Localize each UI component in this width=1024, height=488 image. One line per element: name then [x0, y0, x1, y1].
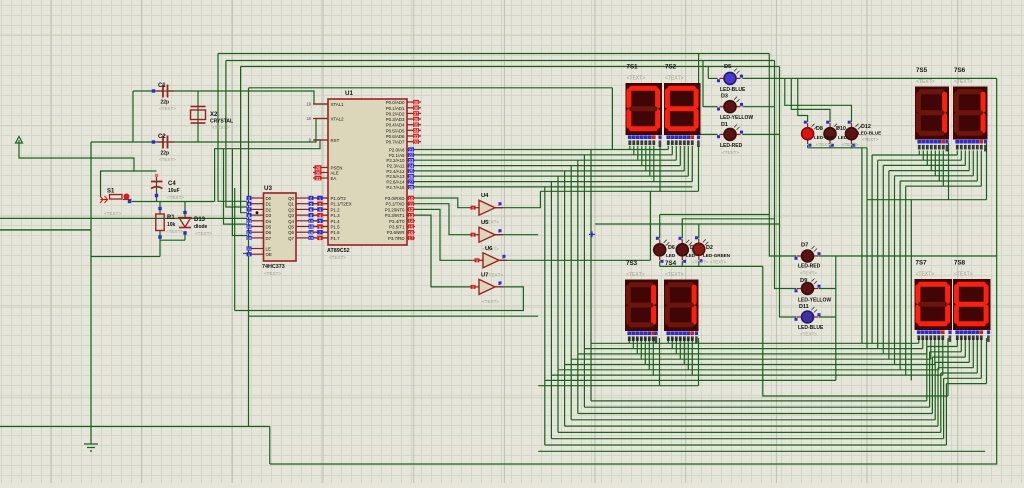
wire net1 top	[218, 53, 769, 55]
svg-text:D8: D8	[816, 126, 823, 132]
wire net3 top	[241, 66, 780, 68]
wire net2 top	[226, 60, 775, 62]
svg-text:P3.2/INT0: P3.2/INT0	[385, 207, 405, 212]
wire D3 input from left	[0, 217, 247, 219]
wire 7S5 pin 2	[926, 151, 928, 166]
wire P2.0 bus	[407, 149, 668, 151]
wire left edge net	[0, 229, 91, 231]
wire drop	[611, 88, 613, 150]
wire 7S6 pin 0	[956, 151, 958, 156]
7-segment display 7S8	[953, 279, 991, 342]
wire 7S4 pin 5	[687, 338, 689, 370]
wire 7S1 pin 6	[653, 146, 655, 182]
wire 7S8 pin 1	[960, 338, 962, 352]
wire jog 2	[932, 356, 965, 358]
svg-text:S1: S1	[107, 189, 115, 195]
wire low branch 7	[545, 444, 947, 446]
svg-text:<TEXT>: <TEXT>	[722, 150, 739, 155]
svg-text:13: 13	[247, 219, 252, 224]
wire 7S8 pin 4	[972, 338, 974, 368]
svg-text:P3.7/RD: P3.7/RD	[388, 236, 405, 241]
wire 7S6 pin 5	[976, 151, 978, 182]
svg-text:U6: U6	[485, 246, 493, 252]
svg-text:7S8: 7S8	[954, 260, 966, 267]
wire D7 right to wrap	[819, 255, 997, 257]
7-segment display 7S5	[915, 87, 949, 152]
wire led col left 3	[707, 67, 709, 79]
LED D8	[802, 121, 818, 147]
wire led col right 2	[774, 61, 776, 107]
wire 7S2 pin 2	[675, 146, 677, 160]
svg-text:C1: C1	[158, 83, 166, 89]
svg-text:16: 16	[309, 230, 314, 235]
wire 7S2 pin 0	[667, 146, 669, 150]
wire 7S6 pin 3	[968, 151, 970, 171]
wire riser 6	[905, 186, 907, 375]
wire VCC to C4 top	[19, 148, 157, 171]
svg-text:P3.0/RXD: P3.0/RXD	[385, 196, 405, 201]
LED Dx	[676, 237, 692, 263]
svg-text:P2.6/A14: P2.6/A14	[386, 180, 405, 185]
svg-text:U4: U4	[481, 193, 489, 199]
svg-text:<TEXT>: <TEXT>	[166, 229, 183, 234]
switch S1	[100, 194, 132, 204]
wire reset junction	[132, 201, 215, 203]
svg-text:D2: D2	[706, 245, 713, 251]
svg-text:<TEXT>: <TEXT>	[916, 272, 935, 278]
wire CA4 drop	[698, 338, 700, 386]
wire 7S8 pin 5	[976, 338, 978, 373]
wire U5 branch CA3/CA4	[538, 385, 698, 387]
7-segment display 7S1	[626, 83, 663, 147]
wire D9 feed	[775, 107, 797, 289]
wire net to right	[249, 87, 613, 89]
crystal X2	[191, 107, 206, 124]
svg-text:LE: LE	[266, 247, 271, 252]
svg-text:10uF: 10uF	[168, 188, 180, 194]
svg-text:P2.2/A10: P2.2/A10	[386, 158, 405, 163]
svg-text:7S4: 7S4	[665, 260, 677, 267]
wire 7S7 pin 6	[942, 338, 944, 375]
svg-text:Q6: Q6	[288, 230, 294, 235]
svg-text:Q2: Q2	[288, 207, 294, 212]
svg-text:CRYSTAL: CRYSTAL	[210, 119, 233, 125]
wire C1 to XTAL1	[133, 91, 328, 104]
wire D11 right	[819, 316, 836, 318]
wire led col left 1	[698, 54, 700, 135]
svg-text:7S6: 7S6	[954, 67, 966, 74]
wire D1 right stub	[742, 133, 779, 135]
wire U7 net riser	[234, 188, 236, 311]
wire D5 net top line	[742, 77, 996, 79]
wire fan line 1	[878, 159, 962, 161]
wire left edge net 2	[0, 229, 91, 231]
wire led bottom	[698, 261, 700, 266]
svg-text:LED-RED: LED-RED	[720, 143, 743, 149]
svg-text:<TEXT>: <TEXT>	[482, 299, 499, 304]
wire 7S8 pin 0	[956, 338, 958, 347]
wire jog 5	[941, 372, 978, 374]
wire bus vertical 4	[564, 171, 566, 426]
svg-text:12: 12	[409, 207, 414, 212]
wire led bottom	[681, 261, 683, 266]
svg-text:7S2: 7S2	[665, 64, 677, 71]
wire fan line 2	[883, 164, 965, 166]
wire CA1 drop	[659, 146, 661, 191]
7-segment display 7S2	[664, 83, 701, 147]
capacitor C1	[152, 85, 174, 98]
wire low riser 3	[934, 362, 936, 419]
svg-text:P0.3/AD3: P0.3/AD3	[386, 117, 405, 122]
wire bus vertical 7	[544, 187, 546, 445]
svg-text:P3.4/T0: P3.4/T0	[389, 219, 405, 224]
svg-text:X2: X2	[210, 112, 218, 118]
svg-text:25: 25	[409, 169, 414, 174]
svg-text:22p: 22p	[161, 100, 170, 106]
svg-text:<TEXT>: <TEXT>	[954, 79, 973, 85]
svg-text:RST: RST	[331, 138, 340, 143]
wire R1 bottom	[159, 231, 161, 257]
svg-text:10k: 10k	[167, 222, 176, 228]
wire 7S4 pin 3	[679, 338, 681, 359]
wire link down to U6 net	[649, 191, 651, 260]
wire CA8 drop	[986, 338, 988, 384]
svg-text:39: 39	[414, 100, 419, 105]
wire C1 left to C2 net	[132, 91, 134, 142]
svg-text:LED-BLUE: LED-BLUE	[798, 325, 824, 331]
ground	[84, 444, 98, 451]
wire gnd to C2	[91, 141, 133, 143]
wire fan line 3	[889, 170, 969, 172]
svg-text:D6: D6	[266, 230, 272, 235]
svg-text:28: 28	[409, 185, 414, 190]
wire bus vertical 0	[590, 150, 592, 401]
wire 7S5 pin 0	[918, 151, 920, 156]
wire D1 left stub	[699, 133, 718, 135]
svg-text:21: 21	[409, 147, 414, 152]
svg-text:<TEXT>: <TEXT>	[264, 271, 281, 276]
wire D2 input	[241, 67, 247, 213]
svg-text:<TEXT>: <TEXT>	[916, 79, 935, 85]
wire fan line 5	[900, 180, 977, 182]
svg-text:D10: D10	[836, 126, 846, 132]
svg-text:D1: D1	[266, 202, 272, 207]
wire P3.1 to U5	[407, 204, 471, 235]
wire 7S3 pin 5	[648, 338, 650, 370]
wire 7S2 pin 3	[679, 146, 681, 166]
svg-text:34: 34	[414, 128, 419, 133]
wire 7S4 pin 6	[691, 338, 693, 375]
svg-text:13: 13	[409, 213, 414, 218]
wire P2.3 bus	[407, 165, 680, 167]
wire CA5/CA6 line	[867, 199, 987, 201]
svg-text:P2.7/A15: P2.7/A15	[386, 185, 405, 190]
wire low riser 2	[931, 357, 933, 413]
svg-text:Q4: Q4	[288, 219, 294, 224]
wire 7S3 pin 1	[632, 338, 634, 349]
wire 7S2 pin 6	[691, 146, 693, 182]
wire riser 0	[871, 155, 873, 343]
wire 7S8 pin 3	[968, 338, 970, 362]
wire bus vertical 1	[583, 155, 585, 407]
svg-text:P1.6: P1.6	[331, 230, 341, 235]
wire 7S1 pin 1	[633, 146, 635, 155]
wire low riser 1	[929, 352, 931, 407]
wire fan line 0	[872, 154, 957, 156]
wire jog 6	[944, 377, 982, 379]
svg-text:D6: D6	[668, 245, 675, 251]
wire led col right 3	[779, 67, 781, 135]
svg-text:<TEXT>: <TEXT>	[159, 157, 176, 162]
wire branch line 2	[578, 353, 927, 355]
svg-text:D7: D7	[801, 243, 808, 249]
wire led top lead 2	[681, 219, 683, 239]
7-segment display 7S3	[625, 280, 658, 343]
wire 7S7 pin 5	[938, 338, 940, 370]
svg-text:24: 24	[409, 163, 414, 168]
wire low branch 0	[591, 400, 927, 402]
wire jog 4	[938, 367, 973, 369]
svg-text:23: 23	[409, 158, 414, 163]
svg-text:19: 19	[309, 236, 314, 241]
svg-text:<TEXT>: <TEXT>	[665, 272, 684, 278]
wire 7S8 pin 6	[980, 338, 982, 378]
svg-text:D11: D11	[799, 304, 809, 310]
wire D9 right	[819, 288, 836, 290]
wire 7S3 pin 2	[636, 338, 638, 354]
wire CA7 drop	[947, 338, 949, 396]
svg-text:D4: D4	[266, 219, 272, 224]
svg-text:LED-RED: LED-RED	[814, 135, 835, 140]
wire corner down	[269, 427, 271, 465]
wire D4 input	[224, 149, 248, 224]
wire LE stub	[243, 253, 252, 255]
wire row B down 2	[866, 148, 868, 349]
wire led bottoms	[660, 265, 763, 267]
svg-text:18: 18	[306, 116, 311, 121]
svg-text:LED-RED: LED-RED	[798, 264, 821, 270]
wire D2 top feed	[595, 223, 779, 225]
wire fan line 4	[895, 175, 974, 177]
svg-text:LED-: LED-	[838, 135, 849, 140]
wire led D6 bottom	[659, 261, 661, 266]
wire D6 top feed	[660, 214, 770, 216]
wire 7S7 pin 1	[922, 338, 924, 349]
svg-text:U3: U3	[264, 185, 272, 192]
svg-text:LED-YELLOW: LED-YELLOW	[720, 115, 753, 121]
wire bus vertical 5	[557, 176, 559, 432]
svg-text:D5: D5	[266, 225, 272, 230]
svg-text:D5: D5	[724, 64, 732, 70]
wire D6 input	[232, 149, 247, 236]
wire P2.2 bus	[407, 159, 676, 161]
wire branch line 0	[591, 342, 919, 344]
svg-text:10: 10	[409, 196, 414, 201]
wire 7S5 pin 5	[938, 151, 940, 182]
svg-text:D9: D9	[800, 278, 808, 284]
svg-text:U7: U7	[481, 272, 488, 278]
wire 7S6 pin 4	[972, 151, 974, 176]
svg-text:37: 37	[414, 111, 419, 116]
svg-text:XTAL2: XTAL2	[331, 117, 345, 122]
wire P3.0 to U4	[407, 198, 471, 208]
wire 7S1 pin 5	[649, 146, 651, 176]
svg-text:P3.6/WR: P3.6/WR	[387, 230, 405, 235]
7-segment display 7S7	[915, 279, 953, 342]
wire CA6 drop	[986, 143, 988, 200]
svg-text:38: 38	[414, 106, 419, 111]
wire D3 left stub	[703, 106, 718, 108]
wire Q7 to P1.7	[309, 237, 329, 239]
svg-text:P2.4/A12: P2.4/A12	[386, 169, 405, 174]
svg-text:<TEXT>: <TEXT>	[800, 271, 817, 276]
wire Q0 to P1.0	[309, 197, 329, 199]
wire 7S4 pin 1	[671, 338, 673, 349]
svg-text:74HC373: 74HC373	[262, 264, 285, 270]
svg-text:D: D	[690, 245, 694, 251]
wire D13 bottom	[184, 231, 186, 240]
wire D2 top lead	[698, 224, 700, 238]
wire low branch 5	[558, 431, 941, 433]
wire branch line 7	[545, 379, 836, 381]
wire bus vertical 2	[577, 160, 579, 413]
svg-text:U1: U1	[345, 90, 353, 97]
svg-text:7S5: 7S5	[916, 67, 928, 74]
capacitor C2	[152, 136, 174, 149]
wire 7S1 pin 0	[629, 146, 631, 150]
buffer U7	[471, 279, 504, 294]
wire D8 feed	[798, 78, 808, 122]
svg-text:Q1: Q1	[288, 202, 294, 207]
wire 7S1 pin 3	[641, 146, 643, 166]
wire reset to RST pin	[215, 140, 320, 202]
wire led col left 2	[702, 61, 704, 107]
wire low riser 5	[940, 373, 942, 432]
svg-text:P0.7/AD7: P0.7/AD7	[386, 140, 405, 145]
wire D6 top lead	[659, 215, 661, 239]
svg-text:15: 15	[309, 224, 314, 229]
wire branch line 3	[571, 358, 931, 360]
wire D1 input	[226, 61, 247, 208]
svg-text:<TEXT>: <TEXT>	[816, 142, 833, 147]
svg-text:7S1: 7S1	[627, 64, 639, 71]
wire 7S3 pin 3	[640, 338, 642, 359]
wire 7S3 pin 4	[644, 338, 646, 365]
wire low branch 6	[551, 438, 943, 440]
svg-text:17: 17	[247, 230, 252, 235]
svg-text:LED-BLUE: LED-BLUE	[720, 87, 746, 93]
svg-text:XTAL1: XTAL1	[331, 102, 345, 107]
svg-text:LED-YELLOW: LED-YELLOW	[798, 298, 831, 304]
svg-text:P0.5/AD5: P0.5/AD5	[386, 128, 405, 133]
wire 7S3 pin 0	[628, 338, 630, 343]
svg-text:P3.1/TXD: P3.1/TXD	[385, 202, 404, 207]
svg-text:22: 22	[409, 153, 414, 158]
svg-text:15: 15	[409, 224, 414, 229]
svg-text:AT89C52: AT89C52	[327, 248, 350, 254]
wire C4 bottom	[156, 179, 158, 202]
wire branch line 5	[558, 369, 939, 371]
svg-text:<TEXT>: <TEXT>	[104, 211, 121, 216]
wire 7S6 pin 2	[964, 151, 966, 166]
wire row B down 1	[861, 148, 863, 343]
wire bottom outer wrap	[270, 78, 997, 464]
wire CA5 drop	[948, 143, 950, 200]
svg-text:P1.1/T2EX: P1.1/T2EX	[331, 202, 352, 207]
wire led lead	[807, 145, 809, 148]
svg-text:14: 14	[247, 224, 252, 229]
wire D5 left stub	[708, 77, 717, 79]
LED D1	[717, 124, 743, 140]
buffer U5	[471, 227, 504, 242]
wire 7S6 pin 1	[960, 151, 962, 161]
svg-text:P1.7: P1.7	[331, 236, 341, 241]
svg-text:D12: D12	[861, 124, 871, 130]
svg-text:P0.4/AD4: P0.4/AD4	[386, 123, 405, 128]
wire U6 out	[499, 259, 650, 261]
svg-text:17: 17	[409, 236, 414, 241]
wire bottom-left long	[0, 426, 270, 428]
LED D10	[824, 121, 840, 147]
wire 7S6 pin 6	[980, 151, 982, 187]
svg-text:P1.5: P1.5	[331, 225, 341, 230]
wire U5 out	[495, 234, 538, 236]
svg-text:LED-GREEN: LED-GREEN	[703, 253, 731, 258]
svg-text:P0.2/AD2: P0.2/AD2	[386, 111, 405, 116]
svg-text:26: 26	[409, 174, 414, 179]
wire 7S2 pin 4	[683, 146, 685, 171]
svg-text:<TEXT>: <TEXT>	[212, 125, 229, 130]
wire branch line 6	[551, 374, 942, 376]
junction dot	[256, 211, 259, 214]
svg-text:C2: C2	[158, 134, 166, 140]
svg-text:LED: LED	[666, 253, 676, 258]
wire D11 feed	[780, 134, 797, 317]
svg-text:Q0: Q0	[288, 196, 294, 201]
wire jog 0	[927, 346, 958, 348]
wire D column join down	[835, 256, 837, 380]
wire D3 right stub	[742, 106, 774, 108]
svg-text:<TEXT>: <TEXT>	[800, 332, 817, 337]
wire riser 5	[899, 181, 901, 370]
svg-text:<TEXT>: <TEXT>	[329, 255, 346, 260]
wire row B bottom	[808, 147, 867, 149]
wire 7S4 pin 4	[683, 338, 685, 365]
buffer U6	[475, 253, 508, 268]
svg-text:<TEXT>: <TEXT>	[710, 260, 727, 265]
wire 7S3 pin 6	[652, 338, 654, 375]
LED D5	[717, 68, 743, 84]
wire low branch 4	[565, 425, 938, 427]
wire riser 3	[888, 171, 890, 360]
svg-text:18: 18	[247, 236, 252, 241]
svg-text:33: 33	[414, 134, 419, 139]
wire P2.5 bus	[407, 175, 688, 177]
svg-text:P1.4: P1.4	[331, 219, 341, 224]
wire 7S4 pin 0	[667, 338, 669, 343]
wire fan line 6	[906, 185, 982, 187]
wire 7S1 pin 2	[637, 146, 639, 160]
wire 7S5 pin 4	[934, 151, 936, 176]
svg-text:19: 19	[306, 102, 311, 107]
wire riser 2	[882, 165, 884, 354]
wire 7S8 pin 2	[964, 338, 966, 357]
wire RST pin stub	[314, 139, 328, 141]
wire ground rail	[90, 142, 92, 444]
wire led lead	[829, 145, 831, 148]
capacitor C4	[151, 174, 163, 197]
svg-text:P1.3: P1.3	[331, 213, 341, 218]
